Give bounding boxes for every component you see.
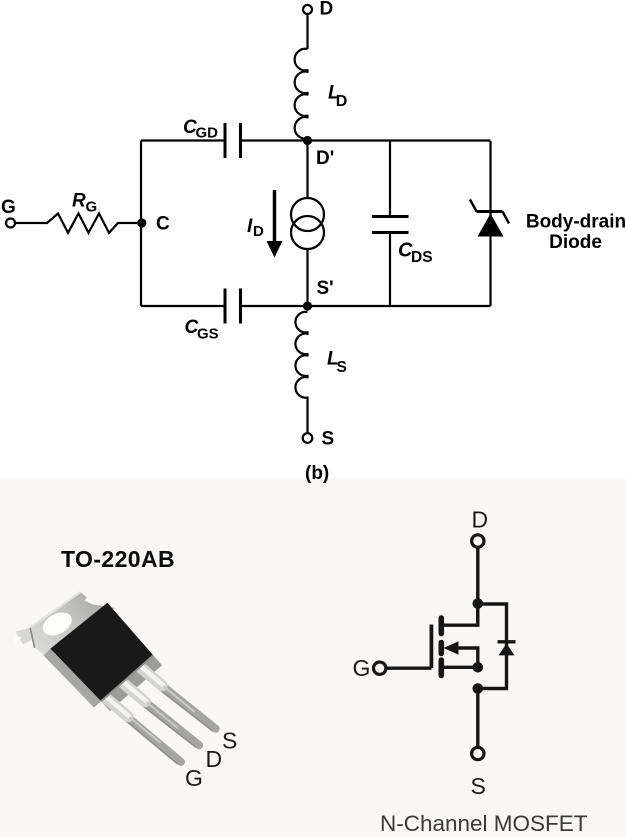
svg-text:S': S' bbox=[317, 278, 334, 299]
svg-text:N-Channel MOSFET: N-Channel MOSFET bbox=[380, 811, 588, 836]
svg-text:D: D bbox=[206, 746, 223, 772]
svg-text:D: D bbox=[472, 507, 489, 533]
svg-text:S: S bbox=[322, 429, 335, 450]
svg-text:D: D bbox=[336, 93, 348, 110]
svg-text:TO-220AB: TO-220AB bbox=[61, 546, 175, 572]
svg-text:S: S bbox=[222, 728, 237, 754]
svg-text:Diode: Diode bbox=[549, 232, 602, 253]
svg-text:G: G bbox=[185, 765, 203, 791]
svg-text:S: S bbox=[471, 773, 486, 799]
svg-text:G: G bbox=[353, 655, 371, 681]
svg-text:(b): (b) bbox=[305, 463, 329, 484]
svg-text:D': D' bbox=[316, 148, 334, 169]
svg-text:DS: DS bbox=[411, 249, 433, 266]
svg-text:GS: GS bbox=[197, 326, 219, 343]
svg-text:R: R bbox=[72, 191, 86, 212]
svg-text:G: G bbox=[1, 197, 16, 218]
svg-text:D: D bbox=[320, 0, 334, 20]
svg-text:S: S bbox=[337, 359, 347, 376]
svg-text:D: D bbox=[253, 223, 264, 240]
svg-text:Body-drain: Body-drain bbox=[526, 212, 626, 233]
svg-text:C: C bbox=[156, 214, 170, 235]
svg-text:GD: GD bbox=[196, 125, 219, 142]
svg-text:G: G bbox=[86, 199, 98, 216]
